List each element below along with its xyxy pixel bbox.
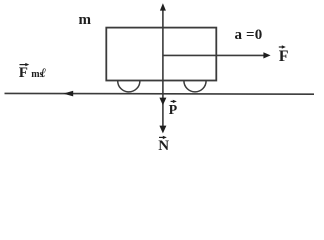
svg-text:=: = xyxy=(246,27,255,43)
svg-text:F: F xyxy=(19,65,28,81)
svg-text:m: m xyxy=(79,12,92,28)
svg-text:a: a xyxy=(235,27,243,43)
svg-text:N: N xyxy=(158,138,169,154)
svg-text:P: P xyxy=(169,103,178,118)
svg-text:ℓ: ℓ xyxy=(40,65,46,80)
svg-text:0: 0 xyxy=(255,27,262,43)
svg-text:F: F xyxy=(279,48,289,65)
